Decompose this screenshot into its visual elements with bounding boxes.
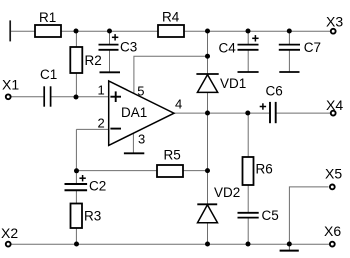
terminal X4: [331, 111, 336, 116]
node R3 bottom junction: [74, 242, 79, 247]
ground bar pin3: [124, 152, 144, 154]
ground bar C7: [279, 71, 299, 73]
capacitor C5: [238, 213, 259, 218]
svg-text:X5: X5: [325, 166, 342, 182]
svg-text:3: 3: [138, 131, 145, 146]
terminal X2: [6, 242, 11, 247]
resistor R6: [243, 157, 254, 185]
svg-text:C4: C4: [219, 41, 237, 56]
svg-text:R5: R5: [164, 148, 181, 163]
svg-text:R6: R6: [256, 162, 273, 177]
wire top rail left: [10, 30, 35, 32]
svg-text:X4: X4: [326, 97, 343, 113]
wire pin5: [134, 56, 208, 93]
wire C5 bottom lead: [247, 218, 249, 244]
svg-text:X2: X2: [1, 225, 18, 241]
resistor R4: [158, 25, 184, 37]
wire C4 bottom lead: [247, 50, 249, 72]
wire VD1 bottom lead: [207, 92, 209, 113]
resistor R5: [157, 165, 183, 177]
terminal X5: [330, 185, 335, 190]
wire feedback column: [75, 129, 77, 170]
node VD1 top junction: [205, 29, 210, 34]
wire R2 bottom: [75, 73, 77, 97]
op-amp minus input mark: [110, 128, 121, 130]
svg-text:X6: X6: [324, 223, 341, 239]
svg-text:C6: C6: [266, 84, 283, 99]
wire R6 to C5: [247, 185, 249, 212]
node VD2 bottom junction: [205, 242, 210, 247]
svg-text:C3: C3: [120, 39, 137, 54]
wire VD1 top lead: [207, 31, 209, 74]
svg-text:R3: R3: [84, 209, 101, 224]
node ground junction: [287, 242, 292, 247]
plus mark C2: [79, 175, 85, 181]
terminal stub: [9, 20, 11, 41]
node R5-VD2 junction: [205, 168, 210, 173]
wire C7 bottom lead: [288, 50, 290, 72]
svg-text:X1: X1: [2, 77, 19, 93]
svg-text:5: 5: [137, 83, 144, 98]
svg-text:VD1: VD1: [220, 76, 246, 91]
svg-text:X3: X3: [326, 13, 343, 29]
svg-text:R2: R2: [85, 53, 102, 68]
ground bar C3: [100, 71, 121, 73]
ground bar C4: [238, 71, 259, 73]
wire C7 top lead: [288, 31, 290, 44]
wire pin2 row: [76, 128, 108, 130]
wire X5: [289, 187, 328, 244]
terminal X6: [330, 242, 335, 247]
terminal X1: [6, 94, 11, 99]
node C2 feedback junction: [74, 168, 79, 173]
capacitor C7: [279, 45, 300, 50]
capacitor C3: [99, 45, 119, 50]
wire C2 top lead: [75, 171, 77, 184]
wire top rail right: [184, 30, 330, 32]
terminal X3: [331, 29, 336, 34]
wire feedback to R5: [76, 170, 157, 172]
node C1-R2 junction: [74, 95, 79, 100]
node C4 top junction: [246, 29, 251, 34]
svg-text:C2: C2: [89, 179, 106, 194]
wire C1 to pin1: [51, 96, 109, 98]
resistor R2: [70, 47, 82, 73]
svg-text:C5: C5: [262, 208, 279, 223]
wire bottom rail: [11, 243, 329, 245]
node VD1 output junction: [205, 111, 210, 116]
svg-text:2: 2: [98, 116, 105, 131]
wire R2 top: [75, 31, 77, 47]
wire VD column mid: [207, 113, 209, 171]
svg-text:C1: C1: [40, 67, 57, 82]
svg-text:R1: R1: [39, 10, 56, 25]
node C3 top junction: [107, 29, 112, 34]
wire output rail: [174, 112, 269, 114]
diode VD1: [196, 74, 218, 92]
capacitor C2: [65, 184, 88, 190]
plus mark C3: [112, 34, 118, 40]
node pin5 junction: [205, 54, 210, 59]
wire R5 to VD column: [183, 170, 208, 172]
wire C3 top lead: [109, 31, 111, 44]
resistor R1: [35, 25, 61, 37]
wire C4 top lead: [247, 31, 249, 44]
wire to VD2: [207, 171, 209, 204]
wire C2 to R3: [75, 191, 77, 204]
wire C6 to X4: [277, 112, 331, 114]
wire X1 to C1: [11, 96, 44, 98]
svg-text:4: 4: [175, 96, 182, 111]
svg-text:1: 1: [98, 83, 105, 98]
node C7 top junction: [287, 29, 292, 34]
wire pin3: [132, 132, 134, 153]
wire C3 bottom lead: [109, 50, 111, 72]
node C5 bottom junction: [246, 242, 251, 247]
wire top rail mid: [61, 30, 158, 32]
wire ground lead: [288, 244, 290, 251]
plus mark C4: [252, 35, 258, 41]
svg-text:R4: R4: [162, 10, 180, 25]
capacitor C1: [44, 86, 50, 106]
svg-text:VD2: VD2: [214, 185, 240, 200]
capacitor C6: [270, 102, 276, 123]
wire R3 bottom: [75, 228, 77, 244]
capacitor C4: [238, 45, 259, 50]
wire VD2 bottom lead: [207, 223, 209, 244]
diode VD2: [197, 204, 217, 222]
resistor R3: [71, 204, 83, 229]
plus mark C6: [260, 103, 266, 109]
op-amp plus input mark: [110, 91, 121, 102]
svg-text:C7: C7: [304, 40, 321, 55]
svg-text:DA1: DA1: [121, 105, 147, 120]
wire R6 top lead: [247, 113, 249, 157]
op-amp U1 DA1: [109, 81, 174, 145]
node R6 output junction: [245, 111, 250, 116]
ground: [280, 250, 299, 252]
node R1-R2 junction: [74, 29, 79, 34]
